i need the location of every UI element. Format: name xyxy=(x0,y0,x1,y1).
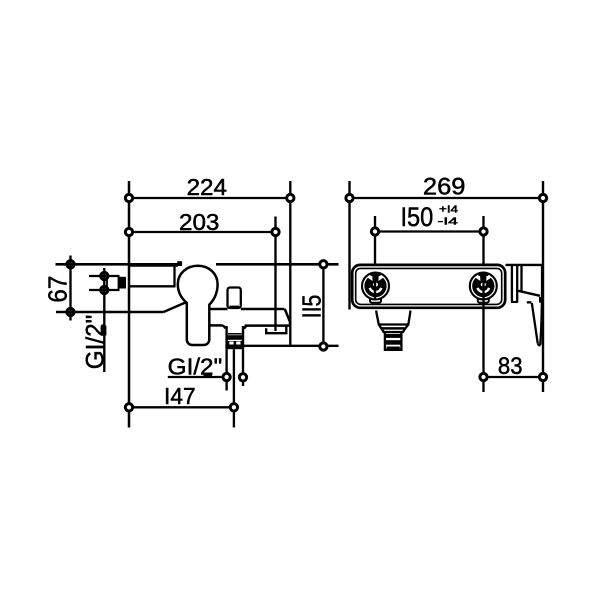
svg-text:GI/2": GI/2" xyxy=(82,315,110,370)
svg-text:203: 203 xyxy=(179,209,219,235)
svg-text:83: 83 xyxy=(498,354,523,380)
svg-text:-I4: -I4 xyxy=(438,216,459,227)
svg-text:224: 224 xyxy=(187,174,227,200)
svg-text:I50: I50 xyxy=(401,202,434,232)
svg-text:GI/2": GI/2" xyxy=(168,354,223,380)
svg-text:269: 269 xyxy=(423,174,466,200)
svg-text:67: 67 xyxy=(45,276,73,303)
svg-text:I47: I47 xyxy=(164,383,196,409)
svg-text:+I4: +I4 xyxy=(439,204,459,215)
svg-text:II5: II5 xyxy=(298,295,326,319)
